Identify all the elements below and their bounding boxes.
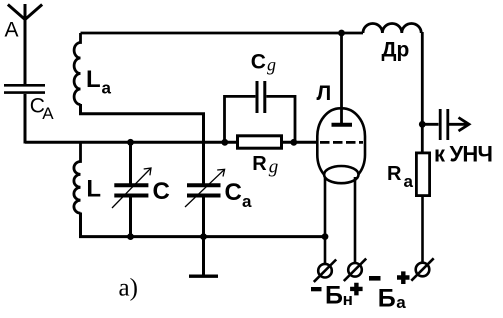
svg-text:Б: Б bbox=[378, 285, 396, 313]
svg-text:C: C bbox=[225, 179, 242, 206]
svg-text:A: A bbox=[5, 19, 19, 42]
svg-text:C: C bbox=[251, 51, 266, 74]
svg-text:а: а bbox=[396, 293, 406, 312]
svg-text:L: L bbox=[86, 66, 101, 93]
svg-text:C: C bbox=[153, 178, 170, 205]
svg-text:н: н bbox=[343, 290, 353, 309]
svg-text:A: A bbox=[42, 104, 54, 123]
svg-text:L: L bbox=[86, 176, 101, 203]
svg-text:a: a bbox=[242, 192, 252, 211]
svg-text:а): а) bbox=[119, 274, 138, 301]
svg-text:Б: Б bbox=[325, 282, 343, 310]
svg-text:Др: Др bbox=[382, 38, 410, 61]
svg-text:a: a bbox=[102, 79, 112, 98]
svg-text:R: R bbox=[252, 153, 267, 175]
svg-text:к УНЧ: к УНЧ bbox=[434, 142, 492, 167]
svg-text:g: g bbox=[267, 55, 276, 75]
svg-text:a: a bbox=[404, 172, 414, 191]
svg-text:Л: Л bbox=[317, 82, 332, 105]
svg-text:R: R bbox=[387, 163, 402, 185]
svg-text:g: g bbox=[269, 156, 279, 177]
